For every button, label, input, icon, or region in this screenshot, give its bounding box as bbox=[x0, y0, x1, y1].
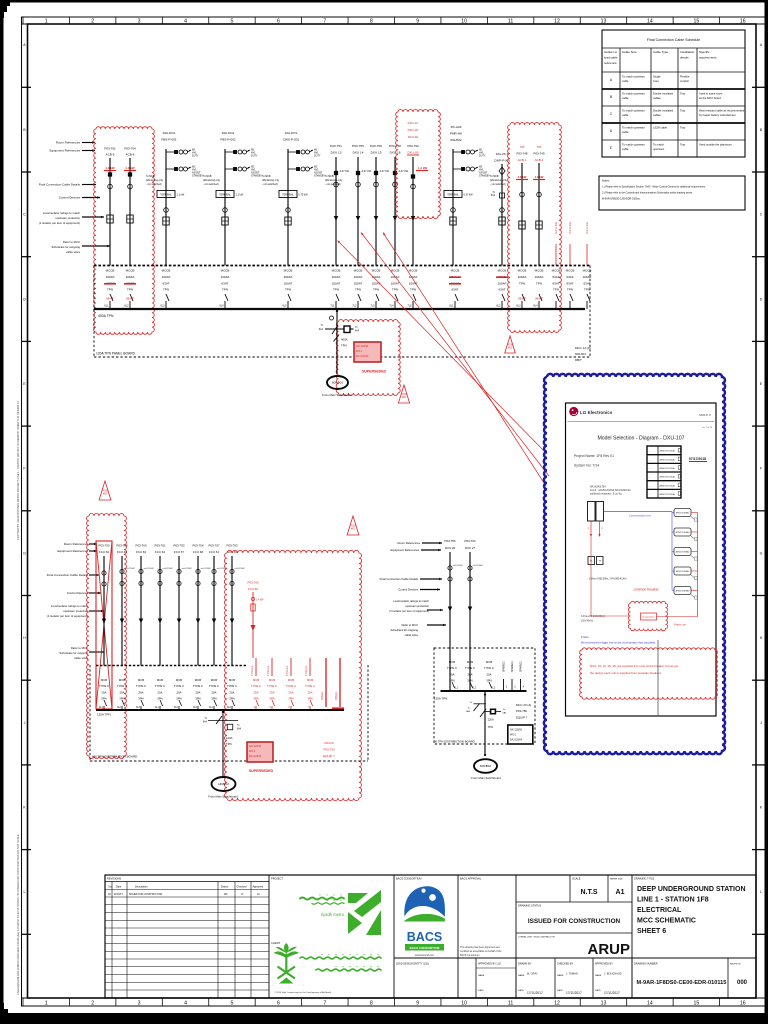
svg-text:MCB: MCB bbox=[486, 660, 492, 664]
svg-text:63AF: 63AF bbox=[552, 275, 559, 279]
spare ways red labels bbox=[555, 244, 557, 266]
svg-text:P03-758: P03-758 bbox=[389, 144, 401, 148]
svg-text:DXU-1D: DXU-1D bbox=[408, 128, 419, 132]
svg-text:MCCB: MCCB bbox=[221, 269, 230, 273]
svg-text:P03-761: P03-761 bbox=[155, 544, 166, 548]
svg-text:4: 4 bbox=[184, 1000, 187, 1006]
svg-text:details: details bbox=[680, 56, 689, 60]
svg-text:MULTI V: MULTI V bbox=[699, 413, 711, 417]
svg-text:P03-707: P03-707 bbox=[209, 544, 220, 548]
svg-text:MCCB: MCCB bbox=[332, 269, 341, 273]
svg-text:common breaker: common breaker bbox=[633, 588, 659, 592]
svg-text:13: 13 bbox=[601, 19, 607, 25]
svg-text:G: G bbox=[760, 551, 763, 555]
svg-text:This drawing has been Approved: This drawing has been Approved and bbox=[460, 946, 500, 949]
svg-text:- -: - - bbox=[649, 451, 651, 453]
svg-text:(1 Isolator per item of equipm: (1 Isolator per item of equipment) bbox=[47, 614, 88, 618]
svg-text:3 P.A.R.E: 3 P.A.R.E bbox=[251, 665, 254, 676]
svg-text:120A TPN PANEL BOARD: 120A TPN PANEL BOARD bbox=[96, 352, 136, 356]
svg-text:CLIENT: CLIENT bbox=[271, 941, 281, 945]
svg-text:M-9AR-1F8DS0-CJ00-EDR-0150xx.: M-9AR-1F8DS0-CJ00-EDR-0150xx. bbox=[602, 198, 641, 201]
svg-text:FCU 60: FCU 60 bbox=[99, 550, 109, 554]
svg-text:Final Connection Cable Schedul: Final Connection Cable Schedule bbox=[647, 38, 700, 42]
svg-text:25A: 25A bbox=[270, 690, 275, 694]
svg-text:Single: Single bbox=[653, 74, 661, 78]
svg-text:DXU 14: DXU 14 bbox=[353, 151, 364, 155]
svg-text:(Monitoring only: (Monitoring only bbox=[325, 179, 343, 182]
svg-text:DUTY: DUTY bbox=[251, 155, 258, 158]
svg-text:requirements: requirements bbox=[699, 56, 717, 60]
svg-text:MCB: MCB bbox=[288, 678, 294, 682]
svg-text:DXU-1B: DXU-1B bbox=[407, 151, 418, 155]
svg-text:DUTY: DUTY bbox=[192, 155, 199, 158]
svg-text:To match upstream: To match upstream bbox=[622, 142, 646, 146]
svg-text:From Main Switchboard: From Main Switchboard bbox=[322, 393, 352, 397]
lower left board outline dashed bbox=[89, 665, 91, 761]
svg-text:160AT: 160AT bbox=[284, 281, 293, 285]
svg-text:DB/T: DB/T bbox=[575, 358, 582, 362]
svg-text:10A-DOL: 10A-DOL bbox=[285, 131, 298, 135]
LG doc red cloud note DXU breakers bbox=[580, 648, 718, 699]
svg-text:P03-764: P03-764 bbox=[124, 147, 136, 151]
svg-text:9: 9 bbox=[416, 1000, 419, 1006]
svg-text:upstream protection: upstream protection bbox=[405, 604, 429, 608]
svg-text:Control Devices: Control Devices bbox=[67, 591, 89, 595]
svg-text:220V,46A(-): 220V,46A(-) bbox=[581, 620, 593, 623]
svg-text:TPN: TPN bbox=[567, 288, 573, 292]
svg-text:- not switched): - not switched) bbox=[203, 183, 219, 186]
svg-text:HDB/02: HDB/02 bbox=[218, 782, 229, 786]
svg-text:FCU 63: FCU 63 bbox=[136, 550, 146, 554]
svg-text:Used in same room: Used in same room bbox=[699, 91, 723, 95]
svg-text:FCU 64: FCU 64 bbox=[155, 550, 165, 554]
svg-text:x-0.47 kW: x-0.47 kW bbox=[235, 568, 246, 570]
svg-text:15: 15 bbox=[693, 19, 699, 25]
svg-text:ARB67DCDR0Ac: ARB67DCDR0Ac bbox=[660, 484, 676, 487]
svg-text:Final Connection Cable Details: Final Connection Cable Details bbox=[47, 573, 89, 577]
svg-text:CWS-P-001: CWS-P-001 bbox=[283, 138, 300, 142]
svg-text:Equipment References: Equipment References bbox=[49, 149, 80, 153]
svg-text:6: 6 bbox=[277, 1000, 280, 1006]
svg-text:Cable Type: Cable Type bbox=[653, 50, 668, 54]
svg-text:MCB: MCB bbox=[195, 678, 201, 682]
svg-text:20A: 20A bbox=[487, 672, 492, 676]
svg-text:- -: - - bbox=[649, 485, 651, 487]
svg-text:MCC 1A (6): MCC 1A (6) bbox=[575, 346, 591, 350]
svg-text:MCCB: MCCB bbox=[518, 269, 527, 273]
svg-text:DEEP UNDERGROUND STATION: DEEP UNDERGROUND STATION bbox=[637, 886, 746, 893]
svg-text:FCU 67: FCU 67 bbox=[174, 550, 184, 554]
svg-text:100AT: 100AT bbox=[354, 281, 363, 285]
svg-text:17/11/2017: 17/11/2017 bbox=[527, 991, 543, 995]
warning triangle near big cloud bbox=[347, 516, 359, 535]
svg-text:100AF: 100AF bbox=[354, 275, 363, 279]
svg-text:Schedules for outgoing: Schedules for outgoing bbox=[391, 628, 419, 632]
svg-text:Isolator to: Isolator to bbox=[604, 50, 618, 54]
svg-text:Final Connection Cable Details: Final Connection Cable Details bbox=[380, 577, 419, 581]
svg-text:To match upstream: To match upstream bbox=[622, 91, 646, 95]
svg-text:2.) Please refer to the Contro: 2.) Please refer to the Controls and Ins… bbox=[602, 192, 693, 195]
svg-text:ACB-5: ACB-5 bbox=[106, 153, 115, 157]
svg-text:MCC SCHEMATIC: MCC SCHEMATIC bbox=[637, 918, 696, 925]
warning triangle right of bus bbox=[505, 336, 516, 353]
svg-text:DXU- 10, 14, 15, 16, are suppl: DXU- 10, 14, 15, 16, are supplied from o… bbox=[590, 664, 678, 668]
svg-text:Comb. : ARUN120LTE4,ARUN120LTE: Comb. : ARUN120LTE4,ARUN120LTE4 bbox=[590, 489, 631, 492]
svg-text:BACS CONSORTIUM: BACS CONSORTIUM bbox=[410, 946, 440, 950]
superseded pink box lower left bbox=[247, 742, 273, 762]
svg-text:ARB67DCDR0Ac: ARB67DCDR0Ac bbox=[660, 476, 676, 479]
svg-text:To MCB: To MCB bbox=[203, 175, 212, 178]
svg-text:DXU 27: DXU 27 bbox=[465, 546, 476, 550]
svg-text:6A4: 6A4 bbox=[355, 330, 360, 333]
svg-text:DRAWING NUMBER: DRAWING NUMBER bbox=[634, 963, 658, 966]
svg-text:P03-759: P03-759 bbox=[370, 144, 382, 148]
svg-text:PMR-HK: PMR-HK bbox=[450, 132, 463, 136]
svg-text:Local isolator ratings to matc: Local isolator ratings to match bbox=[51, 604, 89, 608]
svg-text:125A TPN: 125A TPN bbox=[434, 697, 447, 701]
svg-text:ver 7.0.28: ver 7.0.28 bbox=[702, 426, 713, 429]
svg-text:ELECTRICAL: ELECTRICAL bbox=[637, 907, 682, 914]
svg-text:63AT: 63AT bbox=[499, 288, 506, 292]
svg-text:120A: 120A bbox=[226, 736, 233, 740]
svg-text:100AF: 100AF bbox=[518, 275, 527, 279]
svg-text:ARNU76GB8A4: ARNU76GB8A4 bbox=[676, 512, 690, 515]
svg-text:ARNU76GB8A4: ARNU76GB8A4 bbox=[676, 570, 690, 573]
svg-text:# Note:: # Note: bbox=[581, 636, 589, 639]
svg-text:TPN: TPN bbox=[392, 288, 398, 292]
svg-text:To MCB: To MCB bbox=[146, 175, 155, 178]
svg-text:From Main Switchboard: From Main Switchboard bbox=[208, 795, 238, 799]
svg-text:100AF: 100AF bbox=[409, 275, 418, 279]
lower left incomer bbox=[222, 710, 224, 777]
svg-text:SAJ 123/4A: SAJ 123/4A bbox=[249, 745, 262, 748]
svg-text:www.bacsrail.com: www.bacsrail.com bbox=[415, 954, 434, 957]
svg-text:TPN: TPN bbox=[285, 288, 291, 292]
svg-text:(Monitoring only: (Monitoring only bbox=[203, 179, 221, 182]
svg-text:BACS Consortium.: BACS Consortium. bbox=[460, 954, 480, 957]
svg-text:To MCB: To MCB bbox=[262, 175, 271, 178]
small schedule box lower middle bbox=[508, 725, 533, 744]
warning triangle below top incomer bbox=[398, 385, 409, 403]
svg-text:DRAWN BY: DRAWN BY bbox=[518, 963, 532, 966]
svg-text:100AF: 100AF bbox=[535, 275, 544, 279]
svg-text:10: 10 bbox=[461, 19, 467, 25]
svg-text:5: 5 bbox=[231, 19, 234, 25]
svg-text:Used outside the plantroom: Used outside the plantroom bbox=[699, 142, 733, 146]
svg-text:c:\users\plots\M-9AR-1F8DS0-CE: c:\users\plots\M-9AR-1F8DS0-CE00-EDR-010… bbox=[16, 834, 20, 995]
svg-text:2: 2 bbox=[91, 19, 94, 25]
svg-text:DUTY: DUTY bbox=[479, 155, 486, 158]
scale and size cells bbox=[516, 901, 632, 903]
top board busbar dashed bbox=[94, 265, 590, 267]
svg-text:ISSUED FOR CONSTRUCTION: ISSUED FOR CONSTRUCTION bbox=[528, 918, 621, 925]
LG doc outdoor units bbox=[588, 502, 596, 522]
svg-text:3 P.A.R.E: 3 P.A.R.E bbox=[286, 665, 289, 676]
svg-text:TPN: TPN bbox=[163, 288, 169, 292]
svg-text:TYPE C: TYPE C bbox=[99, 684, 109, 688]
svg-text:TPN: TPN bbox=[355, 288, 361, 292]
svg-text:TPN: TPN bbox=[226, 742, 232, 746]
svg-text:cable: cable bbox=[622, 113, 629, 117]
svg-text:To MCB: To MCB bbox=[490, 175, 499, 178]
svg-text:cable: cable bbox=[622, 147, 629, 151]
svg-text:DXU-1E: DXU-1E bbox=[408, 135, 419, 139]
svg-text:S-P-A-R-E: S-P-A-R-E bbox=[554, 221, 558, 234]
lower left busbar dashed bbox=[96, 665, 247, 667]
svg-text:6A4: 6A4 bbox=[203, 721, 208, 724]
svg-text:LG Electronics: LG Electronics bbox=[580, 410, 613, 415]
svg-text:20A: 20A bbox=[120, 690, 125, 694]
svg-text:ARB67DCDR0Ac: ARB67DCDR0Ac bbox=[660, 493, 676, 496]
svg-text:20 AT: 20 AT bbox=[106, 297, 114, 301]
top board outline dashed bbox=[93, 266, 95, 358]
LG document frame bbox=[566, 403, 717, 716]
svg-text:B: B bbox=[610, 95, 612, 99]
svg-text:000: 000 bbox=[737, 980, 748, 986]
svg-text:DXU 26: DXU 26 bbox=[445, 546, 456, 550]
svg-text:3 P.A.R.E: 3 P.A.R.E bbox=[267, 665, 270, 676]
svg-text:Model Selection - Diagram - DX: Model Selection - Diagram - DXU-107 bbox=[597, 436, 684, 442]
svg-text:20A: 20A bbox=[158, 690, 163, 694]
svg-text:MCCB: MCCB bbox=[409, 269, 418, 273]
svg-text:Communication Line: Communication Line bbox=[629, 515, 651, 518]
svg-text:7: 7 bbox=[323, 19, 326, 25]
svg-text:C: C bbox=[760, 213, 763, 217]
svg-text:Double insulated: Double insulated bbox=[653, 91, 674, 95]
svg-text:DXU 15: DXU 15 bbox=[371, 151, 382, 155]
svg-text:63AT: 63AT bbox=[567, 281, 574, 285]
svg-text:REVISION: REVISION bbox=[730, 964, 741, 966]
svg-text:- not switched): - not switched) bbox=[146, 183, 162, 186]
grid number strip bottom bbox=[22, 997, 767, 999]
svg-text:MCCB: MCCB bbox=[106, 269, 115, 273]
svg-text:#02: #02 bbox=[103, 492, 108, 495]
svg-text:PAPER SIZE: PAPER SIZE bbox=[610, 878, 623, 881]
svg-text:To match upstream: To match upstream bbox=[622, 74, 646, 78]
svg-text:MCCB: MCCB bbox=[284, 269, 293, 273]
svg-text:FCU 68: FCU 68 bbox=[193, 550, 203, 554]
svg-text:by heater battery manufacturer: by heater battery manufacturer bbox=[699, 113, 736, 117]
svg-text:To match upstream: To match upstream bbox=[622, 108, 646, 112]
LG doc idu power line red bbox=[697, 513, 699, 617]
svg-text:3: 3 bbox=[138, 1000, 141, 1006]
svg-text:ACB-1: ACB-1 bbox=[518, 158, 527, 162]
svg-text:MC: MC bbox=[224, 894, 228, 896]
svg-text:ARNU76GB8A4: ARNU76GB8A4 bbox=[676, 531, 690, 534]
svg-text:3-Pole,220-240V,26A(-): 3-Pole,220-240V,26A(-) bbox=[581, 615, 605, 618]
svg-text:FCU 62: FCU 62 bbox=[117, 550, 127, 554]
grid number strip top bbox=[22, 23, 767, 25]
LG doc odu power leads red bbox=[590, 521, 592, 536]
svg-text:J. TAMAN: J. TAMAN bbox=[566, 972, 578, 976]
svg-text:MCB: MCB bbox=[101, 678, 107, 682]
svg-text:16: 16 bbox=[740, 1000, 746, 1006]
svg-text:SUPERSEDED: SUPERSEDED bbox=[362, 370, 387, 374]
svg-text:20A: 20A bbox=[468, 672, 473, 676]
svg-text:D: D bbox=[760, 297, 763, 301]
svg-text:SUPERSEDED: SUPERSEDED bbox=[249, 769, 274, 773]
svg-text:6L3: 6L3 bbox=[160, 305, 165, 308]
svg-text:- -: - - bbox=[649, 459, 651, 461]
svg-text:CHECKED BY: CHECKED BY bbox=[557, 963, 574, 966]
svg-text:P03-700: P03-700 bbox=[248, 581, 259, 585]
svg-text:-0.47 kW: -0.47 kW bbox=[361, 170, 372, 173]
svg-text:TYPE C: TYPE C bbox=[465, 666, 475, 670]
LG doc small breakers bbox=[588, 557, 595, 565]
LG doc communication line blue bbox=[604, 511, 673, 513]
svg-text:DXU 16: DXU 16 bbox=[390, 151, 401, 155]
svg-text:17/11/2017: 17/11/2017 bbox=[604, 991, 620, 995]
svg-text:DRAWING TITLE: DRAWING TITLE bbox=[634, 877, 654, 881]
svg-text:Control Devices: Control Devices bbox=[398, 588, 418, 592]
svg-text:4.0 kW: 4.0 kW bbox=[535, 175, 544, 179]
svg-text:MCB: MCB bbox=[229, 678, 235, 682]
svg-text:ARB67DCDR0Ac: ARB67DCDR0Ac bbox=[660, 458, 676, 461]
svg-text:MCC/9: MCC/9 bbox=[324, 741, 334, 745]
svg-text:8L2: 8L2 bbox=[496, 305, 501, 308]
svg-text:16A-DOL: 16A-DOL bbox=[222, 131, 235, 135]
svg-text:x-0.47 kW: x-0.47 kW bbox=[125, 568, 136, 570]
svg-text:Equipment References: Equipment References bbox=[391, 548, 420, 552]
svg-text:6L1: 6L1 bbox=[104, 305, 109, 308]
svg-text:60 TPN DISTRIBUTION BOARD: 60 TPN DISTRIBUTION BOARD bbox=[434, 740, 475, 744]
svg-text:SPARE: SPARE bbox=[321, 692, 324, 700]
svg-text:8L4: 8L4 bbox=[533, 305, 538, 308]
svg-text:STANDBY: STANDBY bbox=[479, 175, 491, 178]
svg-text:C: C bbox=[23, 213, 26, 217]
svg-text:20A: 20A bbox=[139, 690, 144, 694]
svg-text:L: L bbox=[24, 890, 26, 894]
svg-text:7L1: 7L1 bbox=[330, 305, 335, 308]
svg-text:ARUN240LTE4: ARUN240LTE4 bbox=[590, 486, 606, 489]
svg-text:16A-DOL: 16A-DOL bbox=[163, 131, 176, 135]
svg-text:6A4: 6A4 bbox=[237, 728, 242, 731]
svg-text:SPARE(C): SPARE(C) bbox=[520, 661, 523, 672]
svg-text:DUTY: DUTY bbox=[314, 155, 321, 158]
svg-text:TPN: TPN bbox=[373, 288, 379, 292]
revision cloud around DXU-1B feeder bbox=[396, 110, 441, 219]
svg-text:H: H bbox=[23, 636, 26, 640]
svg-text:load cable: load cable bbox=[604, 56, 618, 60]
svg-text:J: J bbox=[760, 721, 762, 725]
svg-text:(Monitoring only: (Monitoring only bbox=[146, 179, 164, 182]
svg-text:TERMINAL: TERMINAL bbox=[160, 193, 172, 196]
svg-text:4: 4 bbox=[184, 19, 187, 25]
svg-text:S-P-A-R-E: S-P-A-R-E bbox=[585, 221, 589, 234]
svg-text:12: 12 bbox=[554, 19, 560, 25]
svg-text:7L5: 7L5 bbox=[407, 305, 412, 308]
svg-text:Description: Description bbox=[135, 886, 148, 889]
svg-text:P03-703: P03-703 bbox=[227, 544, 238, 548]
title block bottom row bbox=[394, 957, 756, 959]
svg-text:MCB: MCB bbox=[157, 678, 163, 682]
svg-text:ARUP: ARUP bbox=[587, 941, 630, 958]
svg-text:SCALE: SCALE bbox=[572, 877, 581, 881]
svg-text:cable sizes: cable sizes bbox=[66, 250, 80, 254]
svg-text:SPARE: SPARE bbox=[335, 692, 338, 700]
svg-text:3: 3 bbox=[138, 19, 141, 25]
svg-text:DATE: DATE bbox=[478, 989, 484, 992]
svg-text:P03-703: P03-703 bbox=[465, 539, 476, 543]
svg-text:Certified as acceptable on beh: Certified as acceptable on behalf of the bbox=[460, 950, 502, 953]
svg-text:3-Wire+GND/50Hz, 2-PH/380/415H: 3-Wire+GND/50Hz, 2-PH/380/415Hz bbox=[589, 578, 627, 581]
svg-text:APPROVED BY L02: APPROVED BY L02 bbox=[478, 963, 501, 966]
svg-text:TYPE C: TYPE C bbox=[227, 684, 237, 688]
svg-text:LEAD DESIGN ENTITY (L20): LEAD DESIGN ENTITY (L20) bbox=[396, 963, 429, 966]
svg-text:TYPE C: TYPE C bbox=[484, 666, 494, 670]
svg-text:P03-754: P03-754 bbox=[193, 544, 204, 548]
svg-text:- -: - - bbox=[649, 468, 651, 470]
svg-text:breaker(C)(L): breaker(C)(L) bbox=[642, 617, 654, 619]
lower left red spare ways bbox=[325, 658, 327, 707]
svg-text:Tray: Tray bbox=[680, 142, 686, 146]
svg-text:-0.47 kW: -0.47 kW bbox=[379, 170, 390, 173]
svg-text:STANDBY: STANDBY bbox=[192, 175, 204, 178]
svg-text:14: 14 bbox=[647, 19, 653, 25]
svg-text:8: 8 bbox=[370, 1000, 373, 1006]
svg-text:7: 7 bbox=[323, 1000, 326, 1006]
svg-text:Installation: Installation bbox=[680, 50, 695, 54]
svg-text:11: 11 bbox=[508, 1000, 513, 1006]
svg-text:20A: 20A bbox=[230, 690, 235, 694]
svg-text:J. BOUCHAUD: J. BOUCHAUD bbox=[604, 972, 622, 976]
svg-text:D: D bbox=[23, 297, 26, 301]
svg-text:MCCB: MCCB bbox=[566, 269, 575, 273]
scan edge left strip bbox=[0, 0, 4, 1024]
svg-text:750: 750 bbox=[520, 145, 525, 149]
svg-text:0.37 kW: 0.37 kW bbox=[464, 193, 474, 196]
svg-text:TERMINAL: TERMINAL bbox=[282, 193, 294, 196]
svg-text:400A: 400A bbox=[341, 338, 348, 342]
svg-text:Tray: Tray bbox=[680, 91, 686, 95]
svg-text:Room References: Room References bbox=[397, 541, 420, 545]
svg-text:DXU 13: DXU 13 bbox=[331, 151, 342, 155]
lower middle busbar bbox=[441, 690, 527, 692]
svg-text:From Main Switchboard: From Main Switchboard bbox=[471, 776, 501, 780]
svg-text:Control Devices: Control Devices bbox=[59, 196, 81, 200]
svg-text:SPARE(C): SPARE(C) bbox=[503, 661, 506, 672]
svg-text:NAME: NAME bbox=[518, 974, 525, 977]
svg-text:1.) Please refer to Specificat: 1.) Please refer to Specification Sectio… bbox=[602, 186, 706, 189]
svg-text:TPN: TPN bbox=[333, 288, 339, 292]
svg-text:TYPE C: TYPE C bbox=[305, 684, 315, 688]
svg-text:Flexible: Flexible bbox=[680, 74, 690, 78]
svg-text:6A4: 6A4 bbox=[319, 328, 324, 331]
svg-text:TPN: TPN bbox=[553, 288, 559, 292]
svg-text:MCB: MCB bbox=[307, 678, 313, 682]
svg-text:MCB: MCB bbox=[211, 678, 217, 682]
svg-text:MCB: MCB bbox=[449, 660, 455, 664]
lower left main busbar bbox=[96, 709, 344, 711]
svg-text:1.1 kW: 1.1 kW bbox=[236, 193, 244, 196]
svg-text:ARB67DCDR0Ac: ARB67DCDR0Ac bbox=[660, 450, 676, 453]
svg-text:20 AT: 20 AT bbox=[535, 297, 543, 301]
lower middle board outline dashed bbox=[434, 648, 535, 744]
svg-text:20A: 20A bbox=[102, 690, 107, 694]
svg-text:4F5-1: 4F5-1 bbox=[249, 751, 256, 753]
svg-text:#02: #02 bbox=[402, 396, 407, 399]
svg-text:P03-708: P03-708 bbox=[117, 544, 128, 548]
lower middle spare ways vertical text bbox=[503, 679, 505, 691]
svg-text:SHEET 6: SHEET 6 bbox=[637, 928, 666, 935]
svg-text:ARNU76GB8A4: ARNU76GB8A4 bbox=[676, 590, 690, 593]
svg-text:Final Connection Cable Details: Final Connection Cable Details bbox=[39, 183, 81, 187]
svg-text:16: 16 bbox=[740, 19, 746, 25]
svg-text:Tray: Tray bbox=[680, 125, 686, 129]
svg-text:TYPE C: TYPE C bbox=[193, 684, 203, 688]
svg-text:TYPE C: TYPE C bbox=[209, 684, 219, 688]
svg-text:x-0.47 kW: x-0.47 kW bbox=[144, 568, 155, 570]
